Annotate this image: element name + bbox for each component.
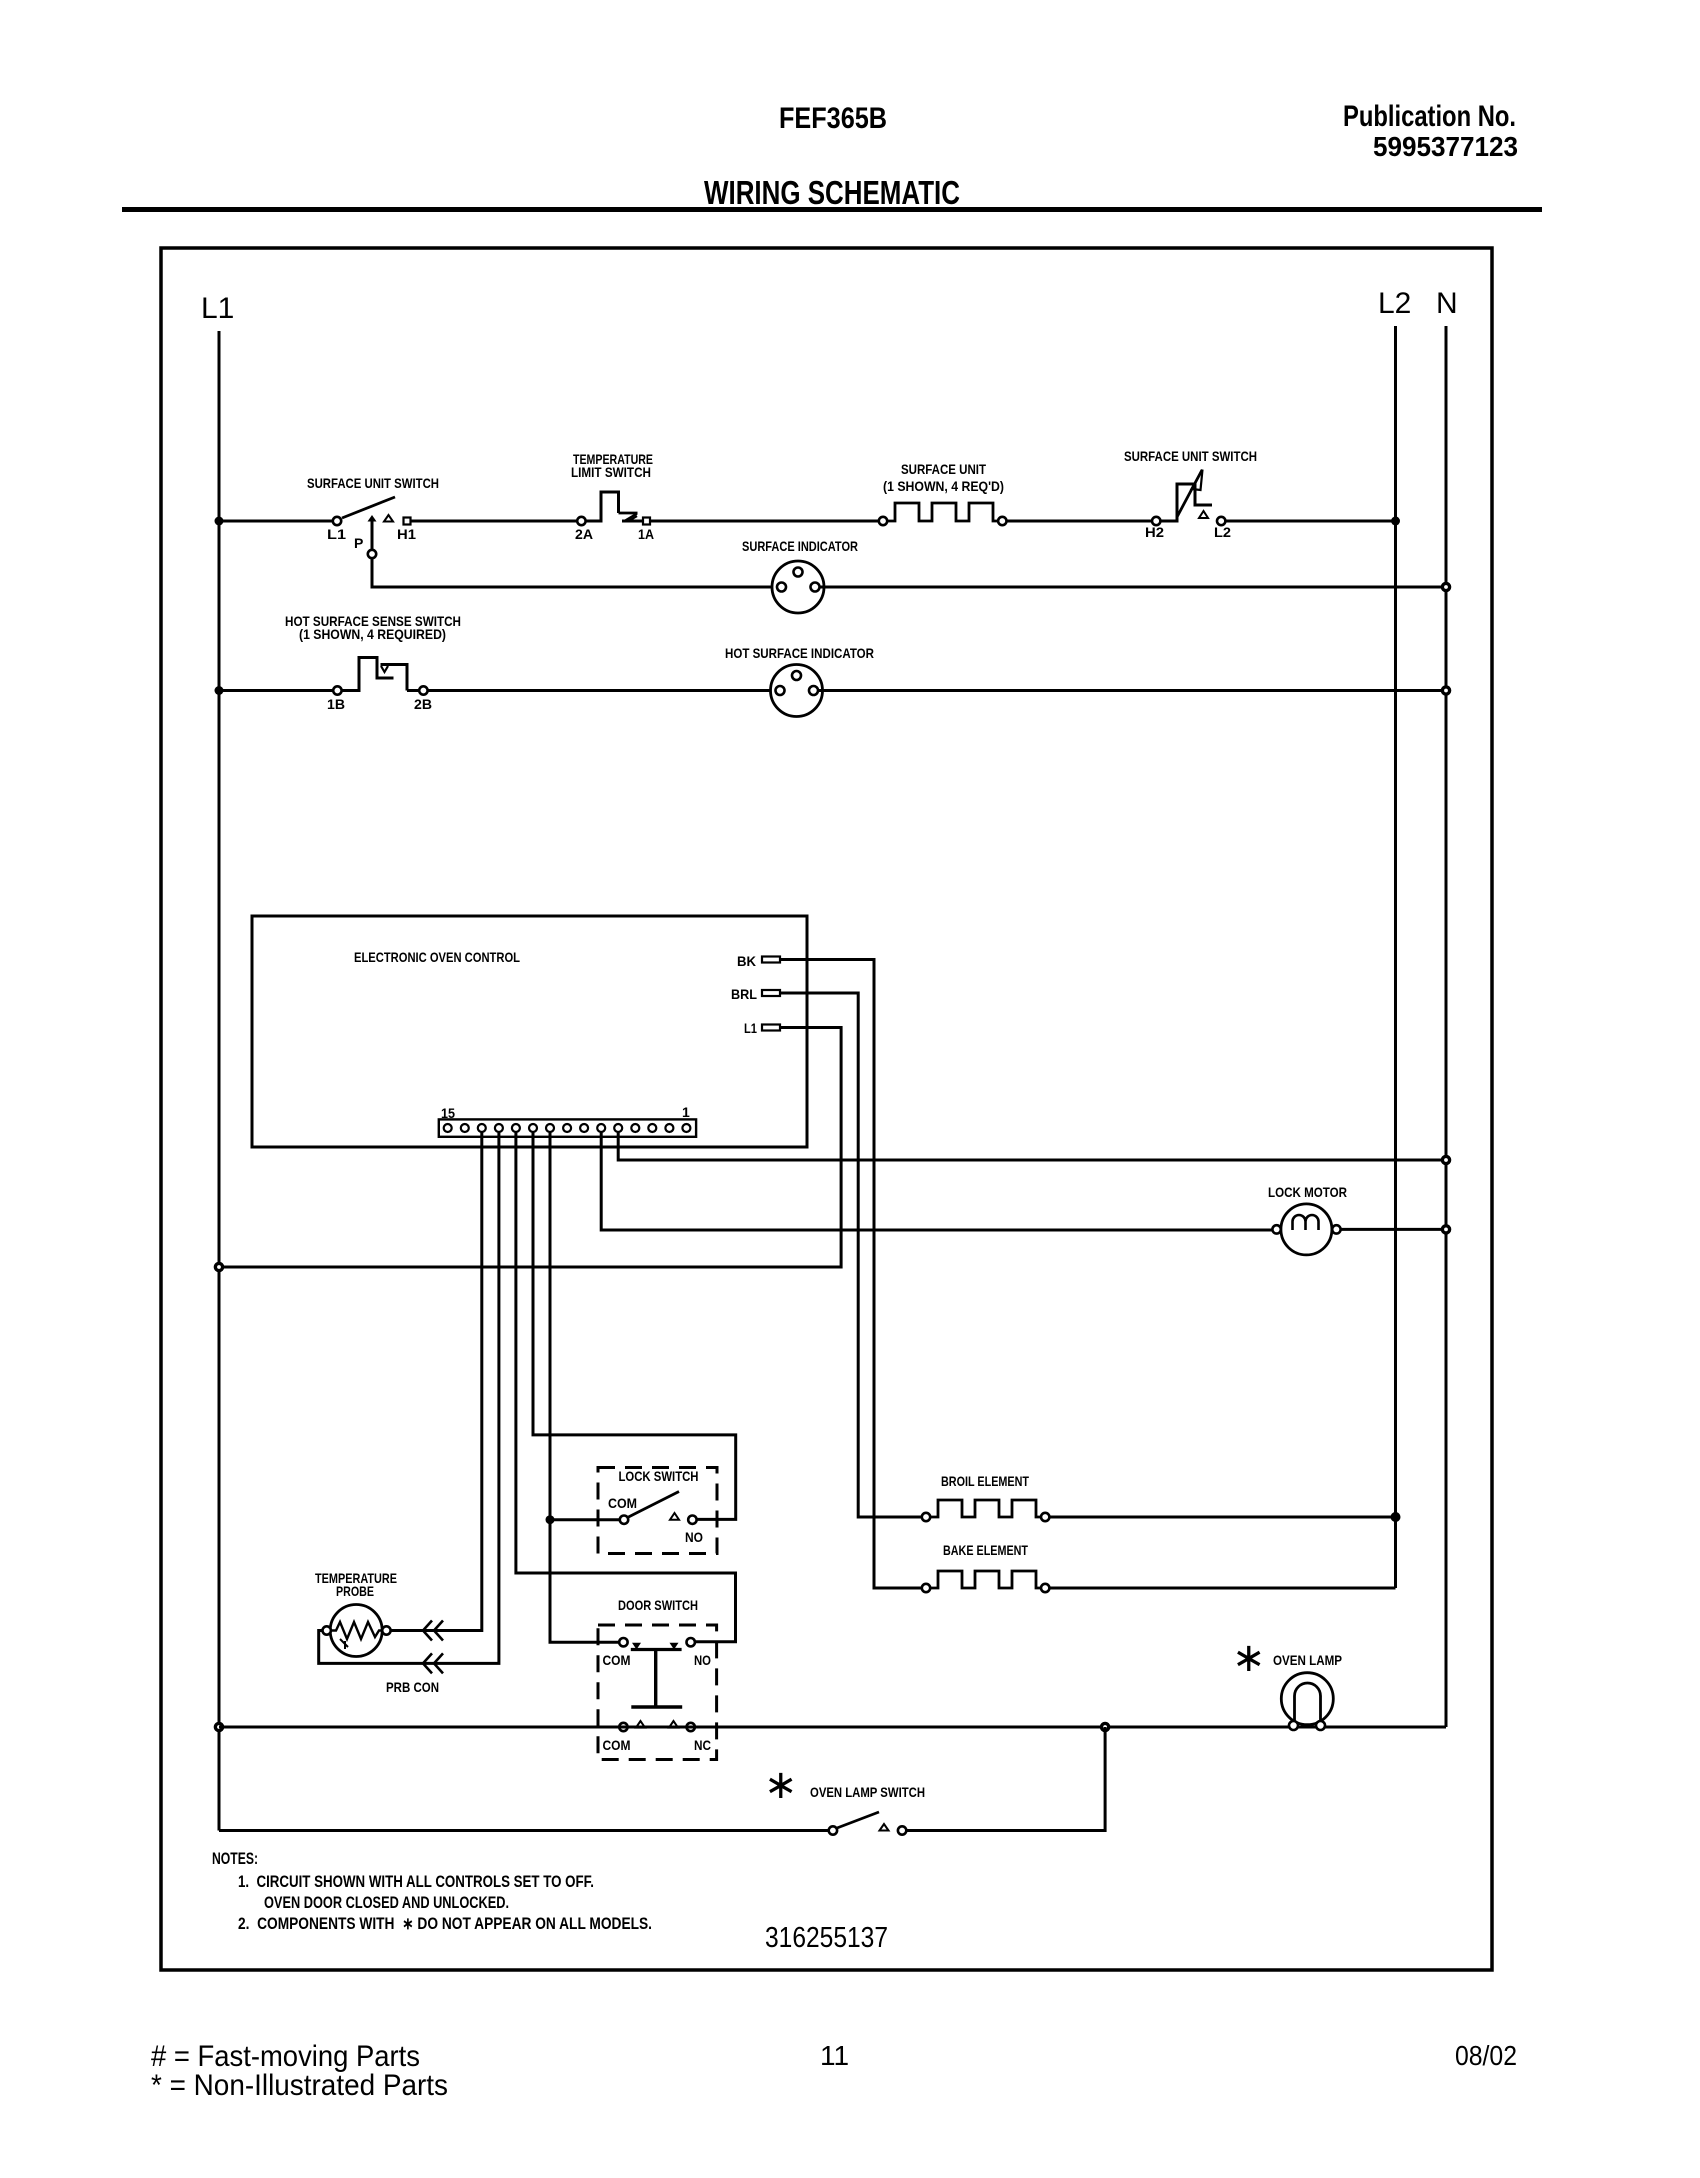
junction L2 / broil row xyxy=(1391,1512,1401,1522)
wire surface indicator to N xyxy=(820,586,1447,589)
lock motor body xyxy=(1281,1204,1332,1255)
svg-text:H1: H1 xyxy=(397,526,416,542)
wire L2 bus vertical xyxy=(1394,326,1397,1588)
svg-text:5995377123: 5995377123 xyxy=(1373,131,1518,162)
surface unit switch contact P (solid) xyxy=(368,515,377,522)
wire surface unit to H2 xyxy=(1007,520,1153,523)
wire 1A to surface unit xyxy=(650,520,879,523)
svg-text:08/02: 08/02 xyxy=(1455,2040,1517,2071)
svg-text:BAKE ELEMENT: BAKE ELEMENT xyxy=(943,1542,1028,1558)
terminal 1B circle xyxy=(333,686,341,694)
hot surface indicator lamp body xyxy=(771,665,823,717)
lock motor right pin xyxy=(1332,1225,1340,1233)
svg-text:NO: NO xyxy=(685,1529,703,1545)
surface unit terminal right xyxy=(998,517,1006,525)
svg-text:HOT SURFACE INDICATOR: HOT SURFACE INDICATOR xyxy=(725,645,874,661)
svg-text:BROIL ELEMENT: BROIL ELEMENT xyxy=(941,1473,1029,1489)
svg-text:SURFACE UNIT SWITCH: SURFACE UNIT SWITCH xyxy=(1124,448,1257,464)
svg-text:* = Non-Illustrated Parts: * = Non-Illustrated Parts xyxy=(151,2069,448,2102)
svg-text:OVEN LAMP: OVEN LAMP xyxy=(1273,1652,1342,1668)
wire L1 bus vertical xyxy=(218,331,221,1831)
junction N / pin5 row xyxy=(1442,1156,1449,1163)
svg-text:2A: 2A xyxy=(575,526,593,542)
wire pin 13 to probe right xyxy=(391,1132,482,1631)
wire pin 10 to lock switch NO xyxy=(533,1132,736,1519)
temperature limit switch wire stub xyxy=(622,520,643,523)
lock switch NO terminal xyxy=(688,1516,696,1524)
hot surface sense switch upper contact xyxy=(381,665,408,691)
wire hot surface indicator to N xyxy=(818,689,1446,692)
temperature probe resistor zigzag xyxy=(332,1622,381,1639)
terminal BK spade lug xyxy=(762,957,780,963)
junction L1 bus / EOC L1 wire xyxy=(215,1263,222,1270)
svg-text:ELECTRONIC OVEN CONTROL: ELECTRONIC OVEN CONTROL xyxy=(354,949,520,965)
svg-text:L2: L2 xyxy=(1214,524,1231,540)
surface unit switch (right) blade arrow xyxy=(1177,470,1202,517)
wire BK from EOC to bake element xyxy=(780,960,922,1589)
surface indicator lamp body xyxy=(772,561,824,613)
svg-text:L2: L2 xyxy=(1378,287,1411,320)
wire L2 switch to L2 bus xyxy=(1225,520,1395,523)
junction N / hot surface row xyxy=(1442,687,1449,694)
bake element terminal left xyxy=(922,1584,930,1592)
svg-text:PRB CON: PRB CON xyxy=(386,1679,439,1695)
surface unit switch (right) arrowhead xyxy=(1192,470,1203,491)
surface indicator left pin xyxy=(777,583,786,592)
junction L1 / top row xyxy=(215,517,224,526)
svg-text:FEF365B: FEF365B xyxy=(779,102,887,135)
oven lamp switch left terminal xyxy=(829,1826,837,1834)
svg-text:N: N xyxy=(1436,287,1458,320)
wire P drop to surface indicator row xyxy=(372,558,778,587)
svg-text:LOCK MOTOR: LOCK MOTOR xyxy=(1268,1184,1347,1200)
terminal 2A circle xyxy=(577,517,585,525)
svg-text:NC: NC xyxy=(694,1737,711,1753)
surface unit terminal left xyxy=(879,517,887,525)
surface unit switch blade xyxy=(342,497,395,518)
wire L1 to 1B xyxy=(219,689,333,692)
svg-text:OVEN DOOR CLOSED AND UNLOCKED.: OVEN DOOR CLOSED AND UNLOCKED. xyxy=(264,1894,509,1912)
junction oven lamp row / lamp switch drop xyxy=(1102,1723,1109,1730)
lock switch blade xyxy=(629,1492,680,1518)
svg-text:11: 11 xyxy=(820,2040,849,2071)
svg-text:LOCK SWITCH: LOCK SWITCH xyxy=(619,1468,699,1484)
lock switch NO contact triangle xyxy=(670,1513,679,1520)
wire N bus vertical xyxy=(1445,326,1448,1727)
svg-text:LIMIT SWITCH: LIMIT SWITCH xyxy=(571,464,651,480)
svg-text:NOTES:: NOTES: xyxy=(212,1850,258,1868)
svg-text:COM: COM xyxy=(603,1737,631,1753)
junction N / surface indicator row xyxy=(1442,583,1449,590)
wire BRL from EOC to broil element xyxy=(780,993,922,1517)
svg-text:SURFACE UNIT: SURFACE UNIT xyxy=(901,461,986,477)
surface indicator right pin xyxy=(811,583,820,592)
temperature limit switch shelf xyxy=(619,512,638,515)
lock motor winding xyxy=(1293,1215,1319,1230)
hot surface indicator top pin xyxy=(792,671,801,680)
hot surface indicator left pin xyxy=(776,686,785,695)
wire lock COM feed xyxy=(550,1518,620,1521)
door switch bridge bar (top) xyxy=(631,1648,682,1651)
probe connector chevrons top xyxy=(423,1621,443,1641)
oven lamp switch contact triangle xyxy=(880,1824,889,1831)
svg-text:L1: L1 xyxy=(201,292,234,325)
wire pin 11 to door switch NO xyxy=(516,1132,736,1642)
svg-text:SURFACE UNIT SWITCH: SURFACE UNIT SWITCH xyxy=(307,475,439,491)
wire H1 to 2A xyxy=(411,520,578,523)
wire 2B to hot surface indicator xyxy=(428,689,776,692)
wire P stem xyxy=(371,521,374,550)
svg-text:1. CIRCUIT SHOWN WITH ALL CON: 1. CIRCUIT SHOWN WITH ALL CONTROLS SET T… xyxy=(238,1873,594,1891)
bake element terminal right xyxy=(1041,1584,1049,1592)
temperature limit switch contact tick xyxy=(630,516,638,521)
door switch dashed box xyxy=(598,1625,717,1760)
broil element terminal left xyxy=(922,1513,930,1521)
door switch actuator bar xyxy=(631,1705,682,1708)
electronic oven control box xyxy=(252,916,807,1147)
temperature probe left pin xyxy=(323,1626,331,1634)
svg-text:(1 SHOWN, 4 REQUIRED): (1 SHOWN, 4 REQUIRED) xyxy=(299,626,446,642)
lock motor left pin xyxy=(1272,1225,1280,1233)
door switch NC terminal (bottom) xyxy=(687,1723,695,1731)
svg-text:DOOR SWITCH: DOOR SWITCH xyxy=(618,1597,698,1613)
terminal 1A square xyxy=(643,518,650,525)
svg-text:316255137: 316255137 xyxy=(765,1922,888,1954)
oven lamp filament xyxy=(1295,1683,1321,1725)
junction N / lock motor row xyxy=(1442,1226,1449,1233)
svg-text:∗: ∗ xyxy=(1232,1636,1266,1680)
svg-text:L1: L1 xyxy=(327,526,346,542)
svg-text:1B: 1B xyxy=(327,696,345,712)
wire lock motor to N xyxy=(1341,1228,1446,1231)
wire pin 6 to lock motor xyxy=(601,1132,1272,1230)
schematic border frame xyxy=(161,248,1492,1970)
wire L1 to surface unit switch xyxy=(219,520,333,523)
door switch COM terminal (top) xyxy=(619,1638,627,1646)
header rule xyxy=(122,207,1542,212)
wire pin 9 to door switch COM xyxy=(550,1132,619,1642)
svg-text:PROBE: PROBE xyxy=(336,1583,374,1599)
svg-text:SURFACE INDICATOR: SURFACE INDICATOR xyxy=(742,538,858,554)
temperature probe body xyxy=(330,1605,382,1657)
junction L2 / top row xyxy=(1391,517,1400,526)
svg-text:BK: BK xyxy=(737,953,756,969)
door switch moving contact right xyxy=(670,1643,679,1650)
svg-text:1A: 1A xyxy=(638,526,654,542)
svg-text:(1 SHOWN, 4 REQ'D): (1 SHOWN, 4 REQ'D) xyxy=(883,478,1004,494)
svg-text:OVEN LAMP SWITCH: OVEN LAMP SWITCH xyxy=(810,1784,925,1800)
EOC connector strip xyxy=(439,1119,696,1136)
broil element heater xyxy=(930,1500,1041,1517)
EOC connector pins xyxy=(444,1124,691,1132)
hot surface indicator right pin xyxy=(809,686,818,695)
svg-text:2. COMPONENTS WITH ∗ DO NOT: 2. COMPONENTS WITH ∗ DO NOT APPEAR ON AL… xyxy=(238,1915,652,1933)
junction L1 / oven lamp row xyxy=(215,1723,222,1730)
terminal L2 circle xyxy=(1217,517,1225,525)
hot surface sense switch step xyxy=(342,658,394,691)
oven lamp switch blade xyxy=(837,1812,879,1828)
wire bake element to L2 xyxy=(1049,1587,1395,1590)
bake element heater xyxy=(930,1571,1041,1588)
surface unit switch (right) step xyxy=(1160,484,1212,521)
svg-text:NO: NO xyxy=(694,1652,711,1668)
surface indicator top pin xyxy=(794,568,803,577)
terminal 2B circle xyxy=(419,686,427,694)
wire L1 to lamp switch xyxy=(219,1829,829,1832)
svg-text:H2: H2 xyxy=(1145,524,1164,540)
svg-text:WIRING SCHEMATIC: WIRING SCHEMATIC xyxy=(704,174,960,211)
door switch NC contact triangle right xyxy=(669,1721,678,1728)
svg-text:L1: L1 xyxy=(744,1020,757,1036)
oven lamp right pin xyxy=(1316,1721,1325,1730)
svg-text:Publication No.: Publication No. xyxy=(1343,100,1516,133)
wire broil element to L2 xyxy=(1049,1516,1395,1519)
temperature limit switch contact mark xyxy=(625,514,638,522)
wire oven lamp row xyxy=(219,1726,1446,1729)
surface unit switch contact H1 (open) xyxy=(384,515,393,522)
svg-text:P: P xyxy=(354,535,363,551)
terminal H1 square xyxy=(404,518,411,525)
temperature probe right pin xyxy=(382,1626,390,1634)
surface unit switch (right) fixed contact xyxy=(1199,511,1208,518)
terminal L1 spade lug xyxy=(762,1025,780,1031)
junction L1 / hot surface row xyxy=(215,686,224,695)
wire to 2B xyxy=(407,689,419,692)
door switch actuator stem xyxy=(654,1650,657,1708)
svg-text:COM: COM xyxy=(608,1495,637,1511)
lock switch COM terminal xyxy=(620,1516,628,1524)
hot surface sense switch contact v xyxy=(381,666,388,672)
oven lamp switch right terminal xyxy=(898,1826,906,1834)
oven lamp left pin xyxy=(1289,1721,1298,1730)
broil element terminal right xyxy=(1041,1513,1049,1521)
door switch moving contact left xyxy=(632,1643,641,1650)
svg-text:1: 1 xyxy=(682,1104,690,1120)
terminal H2 circle xyxy=(1152,517,1160,525)
terminal BRL spade lug xyxy=(762,990,780,996)
svg-text:COM: COM xyxy=(603,1652,631,1668)
surface unit switch terminal L1 xyxy=(333,517,341,525)
terminal P circle xyxy=(368,550,376,558)
wire pin 5 to N xyxy=(618,1132,1446,1160)
oven lamp body xyxy=(1281,1673,1333,1725)
door switch NC contact triangle left xyxy=(636,1721,645,1728)
probe connector chevrons bottom xyxy=(423,1653,443,1673)
temperature limit switch bump xyxy=(586,492,619,521)
temperature probe tick xyxy=(340,1639,348,1649)
lock switch dashed box xyxy=(598,1468,717,1554)
svg-text:∗: ∗ xyxy=(764,1763,798,1807)
surface unit heater element xyxy=(887,503,998,521)
wire L1 from EOC to L1 bus xyxy=(219,1028,841,1268)
door switch COM terminal (bottom) xyxy=(619,1723,627,1731)
door switch NO terminal (top) xyxy=(687,1638,695,1646)
wire pin 12 to probe left xyxy=(319,1132,499,1663)
junction pin9 wire / lock switch COM xyxy=(546,1515,555,1524)
svg-text:2B: 2B xyxy=(414,696,432,712)
wire lamp switch loop xyxy=(906,1727,1105,1831)
svg-text:BRL: BRL xyxy=(731,986,757,1002)
